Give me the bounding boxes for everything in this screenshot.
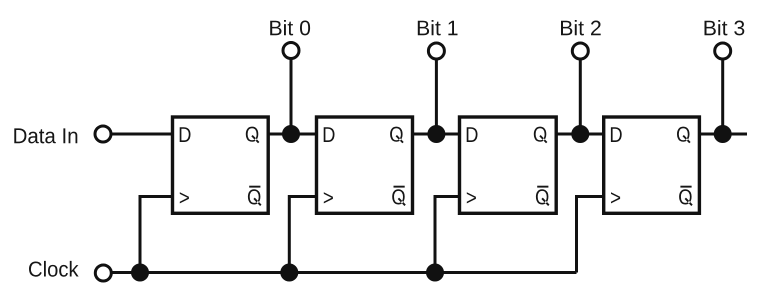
- terminal Data In: [95, 126, 111, 142]
- label Clock: [29, 261, 79, 277]
- flip-flop U1 body: [173, 117, 269, 213]
- wire Bit 0 terminal drop: [290, 59, 293, 135]
- net Bit 2 junction: [571, 125, 589, 143]
- wire Bit 2 terminal drop: [579, 59, 582, 134]
- pin label U4 D: [611, 127, 622, 142]
- terminal Bit 0: [283, 43, 299, 59]
- label Bit 3: [705, 20, 745, 35]
- label Bit 2: [561, 20, 601, 35]
- pin label U3 Q: [534, 127, 548, 144]
- wire U1 Q to U2 D (net Bit 0): [268, 133, 316, 136]
- pin label U2 D: [324, 127, 335, 142]
- net Bit 3 junction: [714, 125, 732, 143]
- label Bit 0: [270, 20, 310, 35]
- clock junction to U2: [280, 264, 298, 282]
- wire Clock bus: [112, 271, 577, 274]
- flip-flop U2 body: [317, 117, 413, 213]
- wire U2 Q to U3 D (net Bit 1): [413, 133, 460, 136]
- terminal Clock: [95, 265, 111, 281]
- pin label U2 Q: [390, 127, 404, 144]
- pin label U2 Qbar: [392, 186, 406, 206]
- pin label U1 Q: [246, 127, 260, 144]
- wire clock riser to U4 clk pin: [577, 197, 604, 273]
- terminal Bit 2: [572, 43, 588, 59]
- label Data In: [14, 128, 77, 143]
- label Bit 1: [418, 20, 458, 35]
- wire U4 Q output stub (net Bit 3): [699, 133, 747, 136]
- clock junction to U3: [426, 264, 444, 282]
- pin label U1 D: [180, 127, 191, 142]
- pin label U1 clk arrow: [180, 192, 189, 203]
- wire Bit 1 terminal drop: [435, 59, 438, 134]
- wire clock riser to U3 clk pin: [435, 197, 460, 273]
- pin label U3 clk arrow: [467, 192, 476, 203]
- wire Bit 3 terminal drop: [721, 59, 724, 134]
- wire Data In to U1 D input: [111, 133, 173, 136]
- clock junction to U1: [131, 264, 149, 282]
- wire clock riser to U2 clk pin: [289, 197, 316, 273]
- pin label U4 clk arrow: [611, 192, 620, 203]
- wire clock riser to U1 clk pin: [140, 197, 173, 273]
- pin label U3 D: [467, 127, 478, 142]
- terminal Bit 3: [715, 43, 731, 59]
- pin label U4 Q: [677, 127, 691, 144]
- terminal Bit 1: [428, 43, 444, 59]
- wire U3 Q to U4 D (net Bit 2): [556, 133, 604, 136]
- flip-flop U3 body: [460, 117, 557, 213]
- net Bit 0 junction: [282, 125, 300, 143]
- pin label U1 Qbar: [248, 186, 262, 206]
- net Bit 1 junction: [427, 125, 445, 143]
- flip-flop U4 body: [604, 117, 700, 213]
- pin label U3 Qbar: [536, 186, 550, 206]
- pin label U4 Qbar: [679, 186, 693, 206]
- pin label U2 clk arrow: [324, 192, 333, 203]
